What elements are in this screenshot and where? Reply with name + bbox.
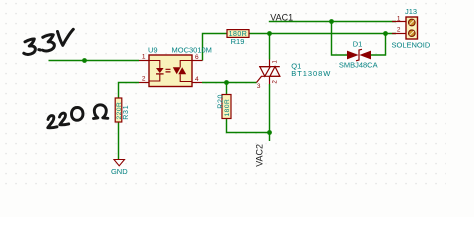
wire VAC1 to J13 pin1	[269, 21, 396, 23]
resistor R20 body	[222, 95, 231, 119]
svg-text:MOC3010M: MOC3010M	[172, 45, 212, 54]
svg-text:180R: 180R	[224, 99, 231, 117]
wire opto pin6 up to R19	[203, 34, 228, 61]
U9 internal triac	[180, 61, 192, 82]
handwritten annotation 3.3V	[24, 29, 74, 54]
wire Q1 top	[269, 34, 271, 60]
junction dot opto pin4 wire / R20	[224, 80, 229, 85]
junction dot wire2 / D1 right leg	[383, 31, 388, 36]
svg-text:U9: U9	[148, 45, 158, 54]
U9 internal LED	[149, 61, 160, 82]
wire Q1 bottom to VAC2	[269, 84, 271, 141]
junction dot R19 wire / Q1	[267, 31, 272, 36]
svg-text:R31: R31	[123, 105, 130, 120]
Q1 pin stub top	[269, 60, 271, 67]
resistor R19 body	[227, 30, 249, 38]
svg-text:VAC2: VAC2	[255, 144, 265, 167]
svg-text:6: 6	[195, 54, 199, 61]
Q1 pin stub bottom	[269, 76, 271, 84]
J13 pin circle 2	[409, 30, 416, 37]
ground symbol	[114, 160, 125, 166]
svg-text:SOLENOID: SOLENOID	[392, 40, 431, 49]
svg-text:VAC1: VAC1	[270, 12, 293, 22]
svg-text:SMBJ48CA: SMBJ48CA	[339, 60, 378, 69]
svg-text:2: 2	[142, 75, 146, 82]
wire D1 right leg	[371, 34, 386, 56]
svg-text:R19: R19	[231, 37, 245, 46]
U9 pin 4 stub	[192, 82, 202, 84]
optocoupler U9 body	[149, 55, 192, 87]
svg-text:D1: D1	[353, 40, 363, 49]
svg-text:220R: 220R	[116, 102, 123, 120]
svg-text:4: 4	[195, 76, 199, 83]
J13 pin circle 1	[409, 19, 416, 26]
wire opto pin2 to R31	[119, 83, 140, 99]
svg-text:BT1308W: BT1308W	[291, 69, 331, 78]
U9 coupling arrows	[166, 69, 171, 72]
junction dot VAC1 / D1 left leg	[329, 19, 334, 24]
svg-text:GND: GND	[111, 167, 128, 176]
wire D1 left leg	[332, 22, 348, 56]
wire opto pin4 to Q1 gate and R20 top	[202, 82, 257, 84]
svg-text:2: 2	[397, 27, 401, 34]
handwritten annotation 220 ohm	[48, 105, 108, 128]
svg-text:R20: R20	[218, 94, 225, 109]
grid dots	[2, 2, 446, 191]
junction dot Q1 bottom / R20	[267, 130, 272, 135]
U9 pin 6 stub	[192, 60, 203, 62]
wire 3.3V net from left to opto pin1	[49, 60, 140, 62]
U9 pin 1 stub	[139, 60, 149, 62]
wire R20 bottom to Q1 bottom wire	[227, 119, 270, 133]
J13 pin 1 stub	[392, 21, 406, 23]
TVS diode D1 symbol	[347, 51, 359, 60]
U9 pin 2 stub	[139, 82, 149, 84]
wire R31 to GND	[118, 122, 120, 160]
J13 pin 2 stub	[392, 33, 406, 35]
connector J13 body	[406, 17, 418, 39]
resistor R31 body	[115, 98, 122, 122]
triac Q1 symbol	[257, 67, 280, 83]
svg-text:3: 3	[257, 83, 261, 90]
junction dot on 3.3V wire	[82, 58, 87, 63]
svg-text:1: 1	[397, 15, 401, 22]
svg-text:1: 1	[142, 53, 146, 60]
svg-text:J13: J13	[405, 7, 417, 16]
wire R19 to J13 pin2	[249, 33, 396, 35]
